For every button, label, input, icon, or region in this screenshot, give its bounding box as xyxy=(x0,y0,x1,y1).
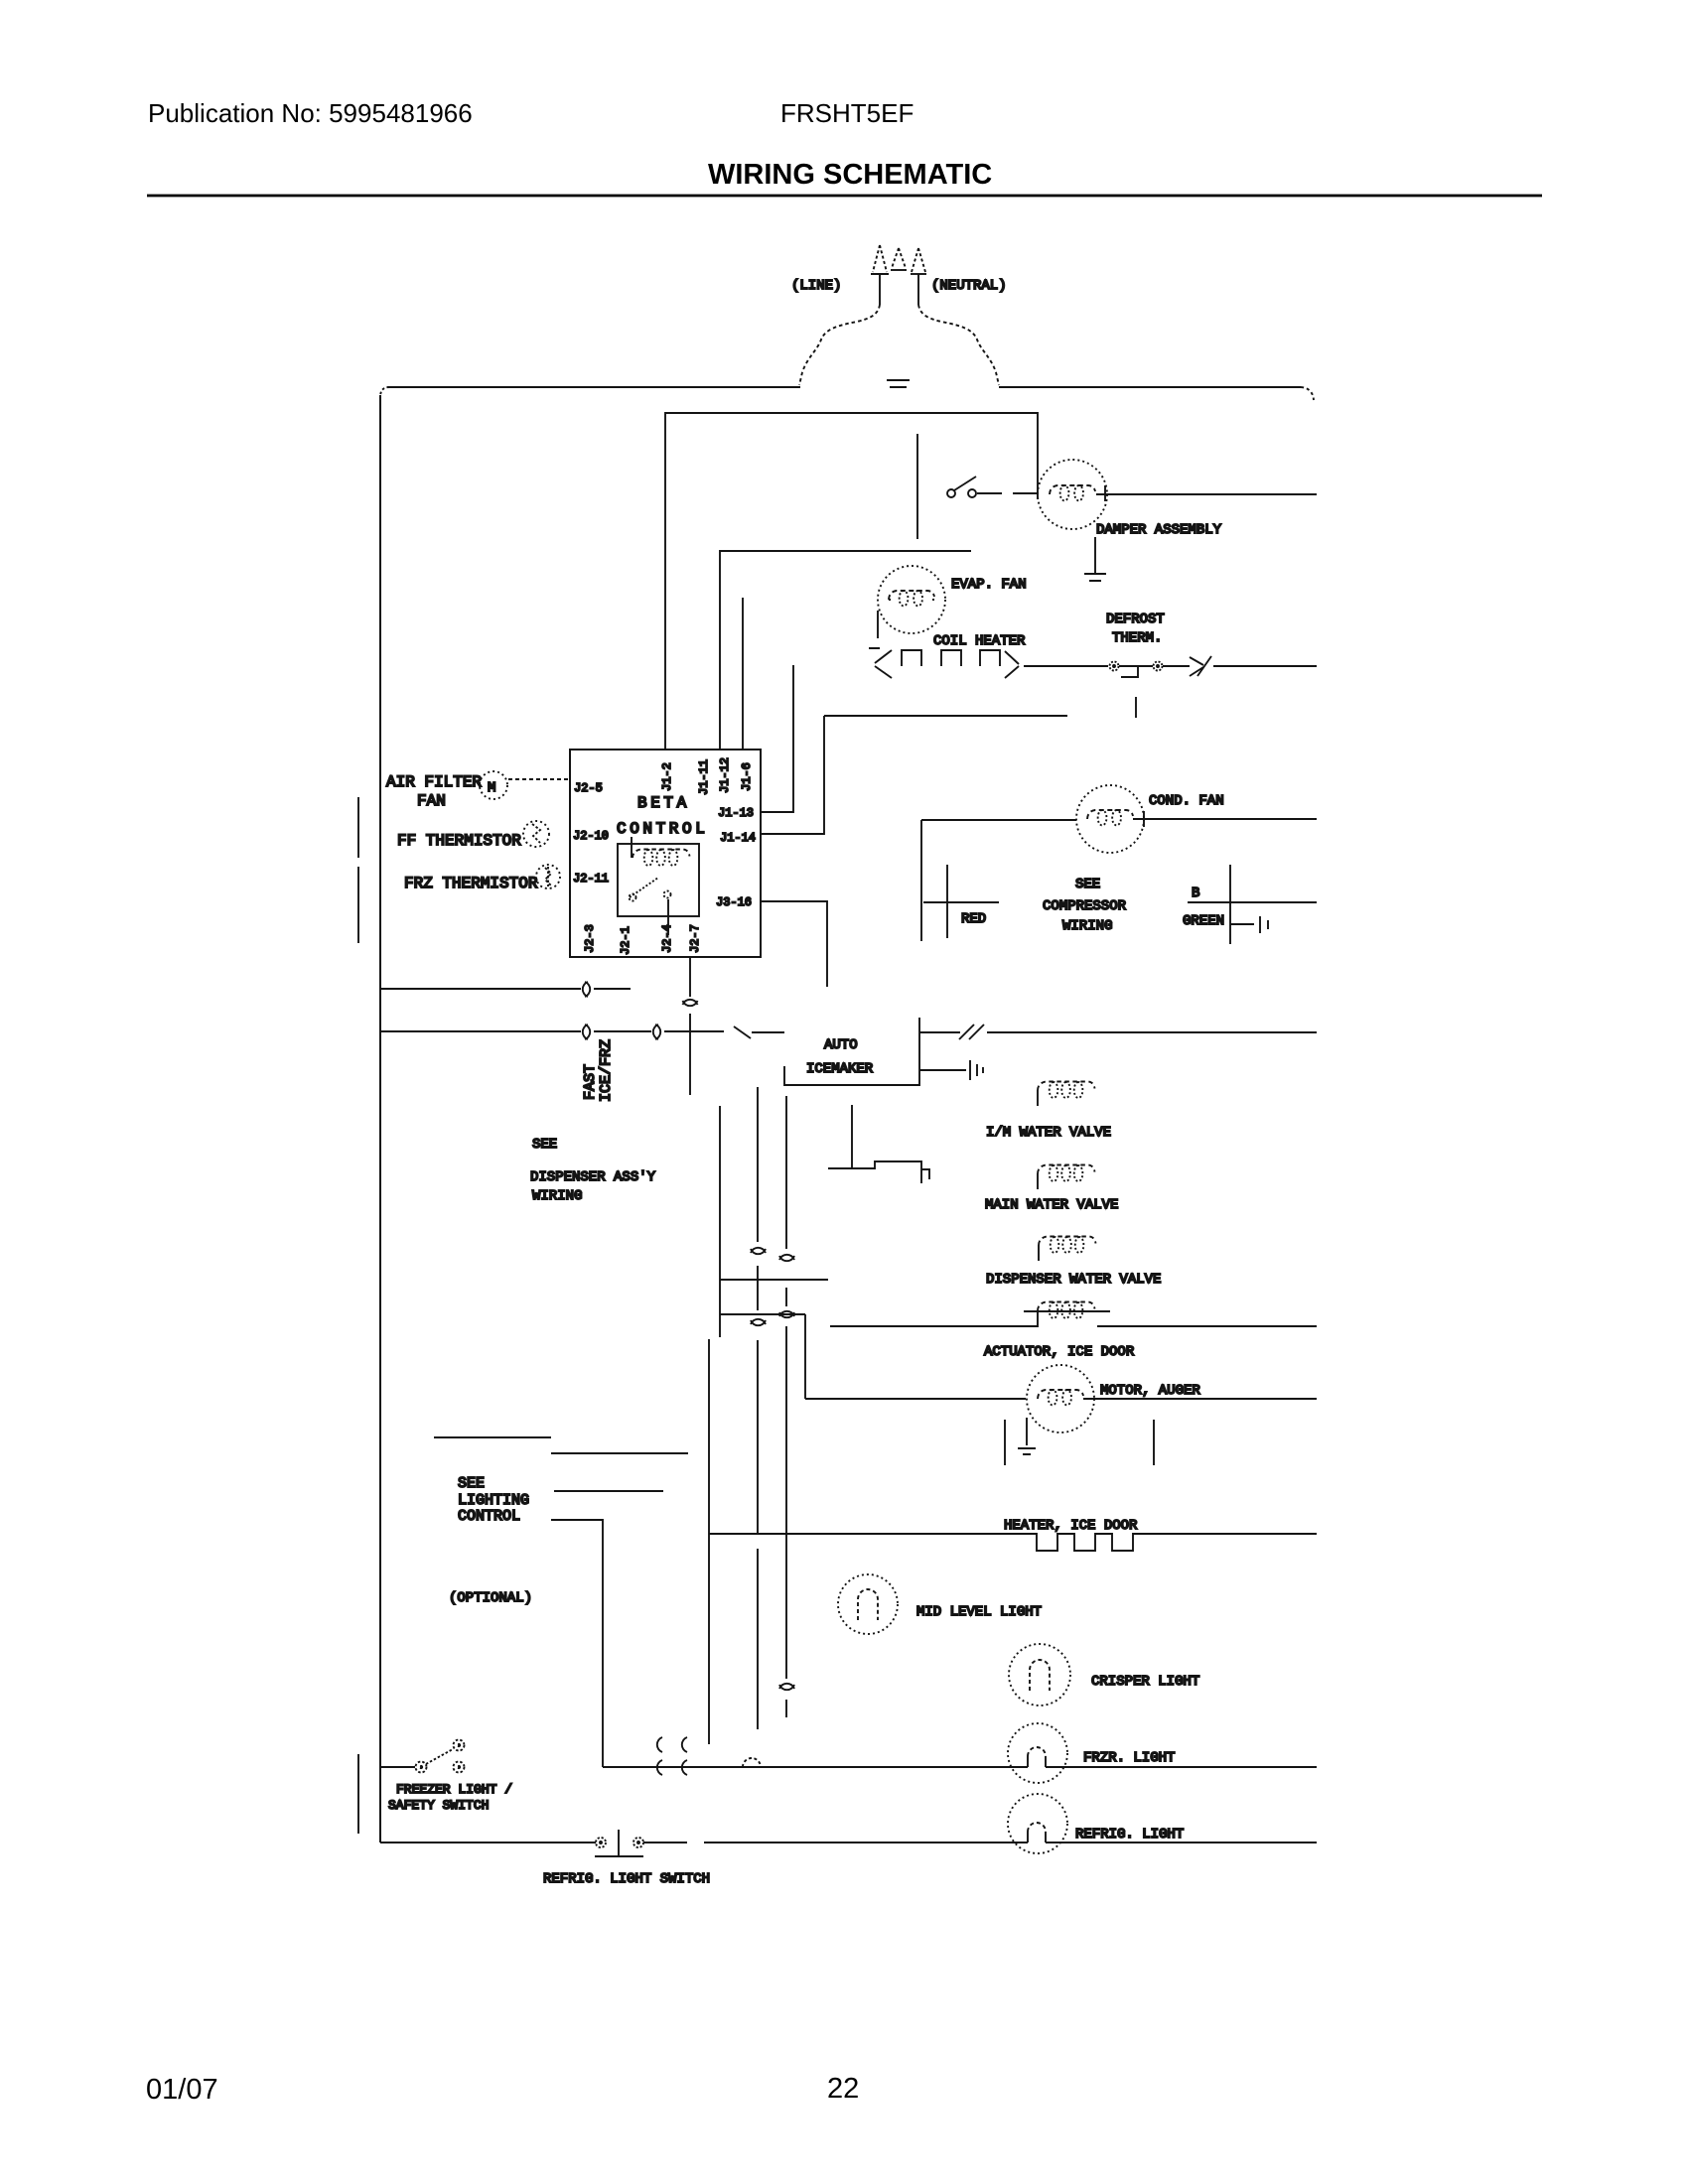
relay switch blade xyxy=(630,878,658,897)
freezer safety switch terminals xyxy=(416,1740,465,1773)
svg-text:CRISPER LIGHT: CRISPER LIGHT xyxy=(1091,1674,1199,1690)
main water valve coil xyxy=(1038,1165,1095,1174)
green connector stub xyxy=(1230,916,1268,933)
dispenser valve lead xyxy=(1038,1245,1040,1261)
svg-text:SAFETY SWITCH: SAFETY SWITCH xyxy=(388,1798,489,1813)
I/M valve lead xyxy=(1037,1090,1039,1106)
plug ground mark = xyxy=(887,380,910,387)
svg-text:WIRING SCHEMATIC: WIRING SCHEMATIC xyxy=(708,159,992,191)
evap fan feed wire xyxy=(720,551,971,750)
compressor red lead vertical xyxy=(946,865,948,938)
lighting control stub 1 xyxy=(434,1436,551,1438)
outer enclosure top-right corner dashed xyxy=(1301,387,1314,400)
heater ice door line and element xyxy=(709,1534,1317,1551)
svg-text:BETA: BETA xyxy=(637,794,690,812)
svg-text:REFRIG. LIGHT: REFRIG. LIGHT xyxy=(1075,1827,1184,1843)
stub wire above damper switch xyxy=(916,434,918,539)
svg-text:MID LEVEL LIGHT: MID LEVEL LIGHT xyxy=(916,1604,1042,1620)
green lead vertical xyxy=(1229,865,1231,944)
left bus verticals middle xyxy=(719,1106,721,1337)
icemaker switch blade xyxy=(734,1026,751,1038)
relay coil xyxy=(633,850,690,859)
svg-text:DEFROST: DEFROST xyxy=(1106,612,1165,627)
svg-text:B: B xyxy=(1192,886,1199,901)
bus wire left y1039 xyxy=(380,1030,724,1032)
svg-text:J2-1: J2-1 xyxy=(619,926,633,955)
motor auger circle xyxy=(1027,1365,1094,1433)
refrig light xyxy=(1008,1794,1067,1853)
stub below defrost xyxy=(1135,697,1137,718)
wire J1-14 riser xyxy=(761,716,824,834)
wire J3-16 down xyxy=(761,901,827,987)
svg-text:J1-2: J1-2 xyxy=(660,762,674,791)
svg-text:SEE: SEE xyxy=(1075,877,1100,892)
cond fan circle xyxy=(1076,785,1144,853)
svg-text:J2-11: J2-11 xyxy=(573,872,609,886)
connector arcs y996 xyxy=(583,982,590,997)
wire J1-6 stub xyxy=(742,598,744,750)
damper ground lead xyxy=(1094,537,1096,573)
svg-text:M: M xyxy=(488,780,495,796)
dispenser water valve coil xyxy=(1039,1237,1096,1246)
cond fan feed wire xyxy=(921,820,1076,941)
coil heater bumps xyxy=(902,650,1000,666)
icemaker top stub xyxy=(752,1031,784,1033)
wire J1-14 horizontal run xyxy=(824,715,1067,717)
svg-text:J2-7: J2-7 xyxy=(688,924,702,953)
svg-text:EVAP. FAN: EVAP. FAN xyxy=(951,577,1027,593)
outer enclosure top-left corner xyxy=(380,387,389,397)
svg-text:J2-3: J2-3 xyxy=(583,924,597,953)
header text xyxy=(148,98,992,191)
motor ground xyxy=(1018,1448,1036,1454)
svg-text:ICEMAKER: ICEMAKER xyxy=(806,1061,874,1077)
dashed wire M to box xyxy=(508,778,570,780)
svg-text:(OPTIONAL): (OPTIONAL) xyxy=(449,1590,532,1606)
freezer safety switch blade xyxy=(426,1749,453,1764)
connector pair at x688 xyxy=(682,1737,687,1775)
relay box xyxy=(618,844,699,916)
svg-text:COND. FAN: COND. FAN xyxy=(1149,793,1224,809)
refrig light switch xyxy=(596,1838,606,1847)
main valve lead xyxy=(1037,1173,1039,1189)
motor auger line right xyxy=(1083,1398,1317,1400)
frzr light xyxy=(1008,1723,1067,1783)
svg-text:FRZ THERMISTOR: FRZ THERMISTOR xyxy=(404,875,538,892)
evap fan lead down xyxy=(877,611,879,638)
svg-text:LIGHTING: LIGHTING xyxy=(458,1492,529,1509)
svg-text:COMPRESSOR: COMPRESSOR xyxy=(1043,898,1127,914)
lighting control stub 4 and riser xyxy=(551,1520,603,1767)
inner top bus wire xyxy=(665,413,1038,750)
svg-text:J1-6: J1-6 xyxy=(740,762,754,791)
icemaker line break slashes xyxy=(959,1024,984,1039)
wire line prong xyxy=(879,274,881,305)
bus wire left y996 xyxy=(380,988,631,990)
wire defrost to right edge xyxy=(1213,665,1317,667)
svg-text:DISPENSER WATER VALVE: DISPENSER WATER VALVE xyxy=(986,1272,1161,1288)
cond fan right tick xyxy=(1143,811,1145,827)
freezer light line xyxy=(603,1766,1317,1768)
defrost therm right arrow and slash xyxy=(1163,656,1211,676)
svg-text:J3-16: J3-16 xyxy=(716,895,752,909)
auto icemaker box xyxy=(784,1018,919,1085)
svg-text:FRZR. LIGHT: FRZR. LIGHT xyxy=(1083,1750,1175,1766)
bus horizontals left xyxy=(720,1279,828,1281)
icemaker line to right with break xyxy=(919,1031,1317,1033)
svg-text:REFRIG. LIGHT SWITCH: REFRIG. LIGHT SWITCH xyxy=(543,1871,710,1887)
left margin tick bottom xyxy=(357,1754,359,1834)
evap fan circle xyxy=(878,566,945,633)
actuator coil xyxy=(1038,1302,1095,1311)
svg-text:J1-14: J1-14 xyxy=(720,831,756,845)
damper ground xyxy=(1084,574,1106,581)
svg-text:(LINE): (LINE) xyxy=(791,278,841,294)
svg-text:Publication No: 5995481966: Publication No: 5995481966 xyxy=(148,98,473,128)
left margin tick 2 xyxy=(357,867,359,943)
wire J2-7 down xyxy=(689,957,691,1095)
BETA control box xyxy=(570,750,761,957)
svg-text:01/07: 01/07 xyxy=(146,2074,218,2106)
relay terminals xyxy=(630,894,636,901)
outer enclosure top edge left xyxy=(387,386,800,388)
freezer light safety switch line xyxy=(380,1766,415,1768)
air filter fan motor circle xyxy=(480,771,507,799)
svg-text:ACTUATOR, ICE DOOR: ACTUATOR, ICE DOOR xyxy=(984,1344,1135,1360)
bottom line right xyxy=(643,1842,1317,1843)
svg-text:22: 22 xyxy=(827,2073,859,2105)
wire J1-13 riser xyxy=(761,665,793,812)
mid level light xyxy=(838,1574,898,1634)
svg-text:FF THERMISTOR: FF THERMISTOR xyxy=(397,832,521,850)
header rule xyxy=(147,195,1542,198)
plug prong left xyxy=(873,245,887,272)
plug prong middle xyxy=(892,248,906,268)
left margin tick 1 xyxy=(357,797,359,858)
wire switch to damper xyxy=(977,492,1039,494)
outer enclosure top edge right xyxy=(999,386,1301,388)
coil heater left chevron xyxy=(869,648,892,678)
bottom line left xyxy=(380,1842,596,1843)
svg-text:ICE/FRZ: ICE/FRZ xyxy=(598,1039,615,1102)
FRZ thermistor symbol xyxy=(536,865,560,888)
motor auger line left xyxy=(805,1398,1026,1400)
svg-text:(NEUTRAL): (NEUTRAL) xyxy=(931,278,1007,294)
svg-text:GREEN: GREEN xyxy=(1183,913,1224,929)
bus vertical x763 segments xyxy=(757,1087,759,1729)
damper right tick xyxy=(1104,485,1106,501)
plug body outline dashed xyxy=(799,305,999,385)
hop arc on freezer line xyxy=(743,1758,761,1767)
svg-text:FRSHT5EF: FRSHT5EF xyxy=(780,98,914,128)
svg-text:FAST: FAST xyxy=(582,1064,599,1100)
svg-text:HEATER, ICE DOOR: HEATER, ICE DOOR xyxy=(1004,1518,1138,1534)
motor side pin right xyxy=(1153,1420,1155,1465)
riser to motor auger xyxy=(804,1314,806,1399)
icemaker ground xyxy=(919,1060,983,1080)
connector arcs on x763 xyxy=(751,1248,766,1325)
svg-text:CONTROL: CONTROL xyxy=(617,820,708,838)
actuator ice door circuit xyxy=(830,1311,1317,1326)
svg-text:J1-11: J1-11 xyxy=(697,759,711,795)
svg-text:J1-12: J1-12 xyxy=(718,757,732,793)
outer enclosure left edge xyxy=(379,395,381,1843)
motor side pin left xyxy=(1004,1420,1006,1465)
I/M water valve coil xyxy=(1038,1082,1095,1091)
lighting control stub 2 xyxy=(551,1452,688,1454)
svg-text:AUTO: AUTO xyxy=(824,1037,858,1053)
footer xyxy=(146,2073,859,2106)
svg-text:J2-5: J2-5 xyxy=(574,781,603,795)
svg-text:I/M WATER VALVE: I/M WATER VALVE xyxy=(986,1125,1111,1141)
bus vertical x792 segments xyxy=(785,1096,787,1717)
svg-text:SEE: SEE xyxy=(532,1137,557,1153)
svg-text:RED: RED xyxy=(961,911,986,927)
svg-text:COIL HEATER: COIL HEATER xyxy=(933,633,1026,649)
damper assembly coil circle xyxy=(1038,460,1107,529)
coil heater right chevron xyxy=(1005,651,1019,678)
svg-text:MOTOR, AUGER: MOTOR, AUGER xyxy=(1100,1383,1200,1399)
wire heater to defrost thermostat xyxy=(1024,665,1108,667)
lighting control stub 3 xyxy=(554,1490,663,1492)
relay output wire xyxy=(667,899,669,935)
crisper light xyxy=(1009,1644,1070,1706)
svg-text:DISPENSER ASS'Y: DISPENSER ASS'Y xyxy=(530,1169,656,1185)
motor ground lead xyxy=(1026,1418,1028,1445)
damper switch xyxy=(947,489,955,497)
svg-text:AIR FILTER: AIR FILTER xyxy=(386,773,482,791)
svg-text:J1-13: J1-13 xyxy=(718,806,754,820)
svg-text:SEE: SEE xyxy=(458,1475,485,1492)
svg-text:WIRING: WIRING xyxy=(1062,918,1112,934)
connector arcs on x792 xyxy=(779,1255,794,1690)
red lead horizontal xyxy=(923,901,999,903)
svg-text:MAIN WATER VALVE: MAIN WATER VALVE xyxy=(985,1197,1118,1213)
defrost thermostat xyxy=(1110,662,1119,671)
icemaker fill tube xyxy=(828,1105,929,1183)
connector pair at x662 xyxy=(657,1737,662,1775)
svg-text:WIRING: WIRING xyxy=(532,1188,582,1204)
relay coil lead xyxy=(631,837,633,858)
svg-text:DAMPER ASSEMBLY: DAMPER ASSEMBLY xyxy=(1096,522,1222,538)
connector arcs y1039 xyxy=(583,1024,660,1039)
plug prong right xyxy=(912,248,925,272)
svg-text:FAN: FAN xyxy=(417,792,446,810)
connector arcs on J2-7 wire xyxy=(683,1000,698,1006)
svg-text:J2-10: J2-10 xyxy=(573,829,609,843)
wire damper to right edge xyxy=(1096,493,1317,495)
wire cond fan to right edge xyxy=(1133,818,1317,820)
svg-text:J2-4: J2-4 xyxy=(660,924,674,953)
FF thermistor symbol xyxy=(523,821,549,847)
green wire to right edge xyxy=(1188,901,1317,903)
svg-text:CONTROL: CONTROL xyxy=(458,1508,520,1525)
svg-text:FREEZER LIGHT /: FREEZER LIGHT / xyxy=(396,1782,512,1797)
svg-text:THERM.: THERM. xyxy=(1112,630,1162,646)
wire neutral prong xyxy=(917,274,919,305)
